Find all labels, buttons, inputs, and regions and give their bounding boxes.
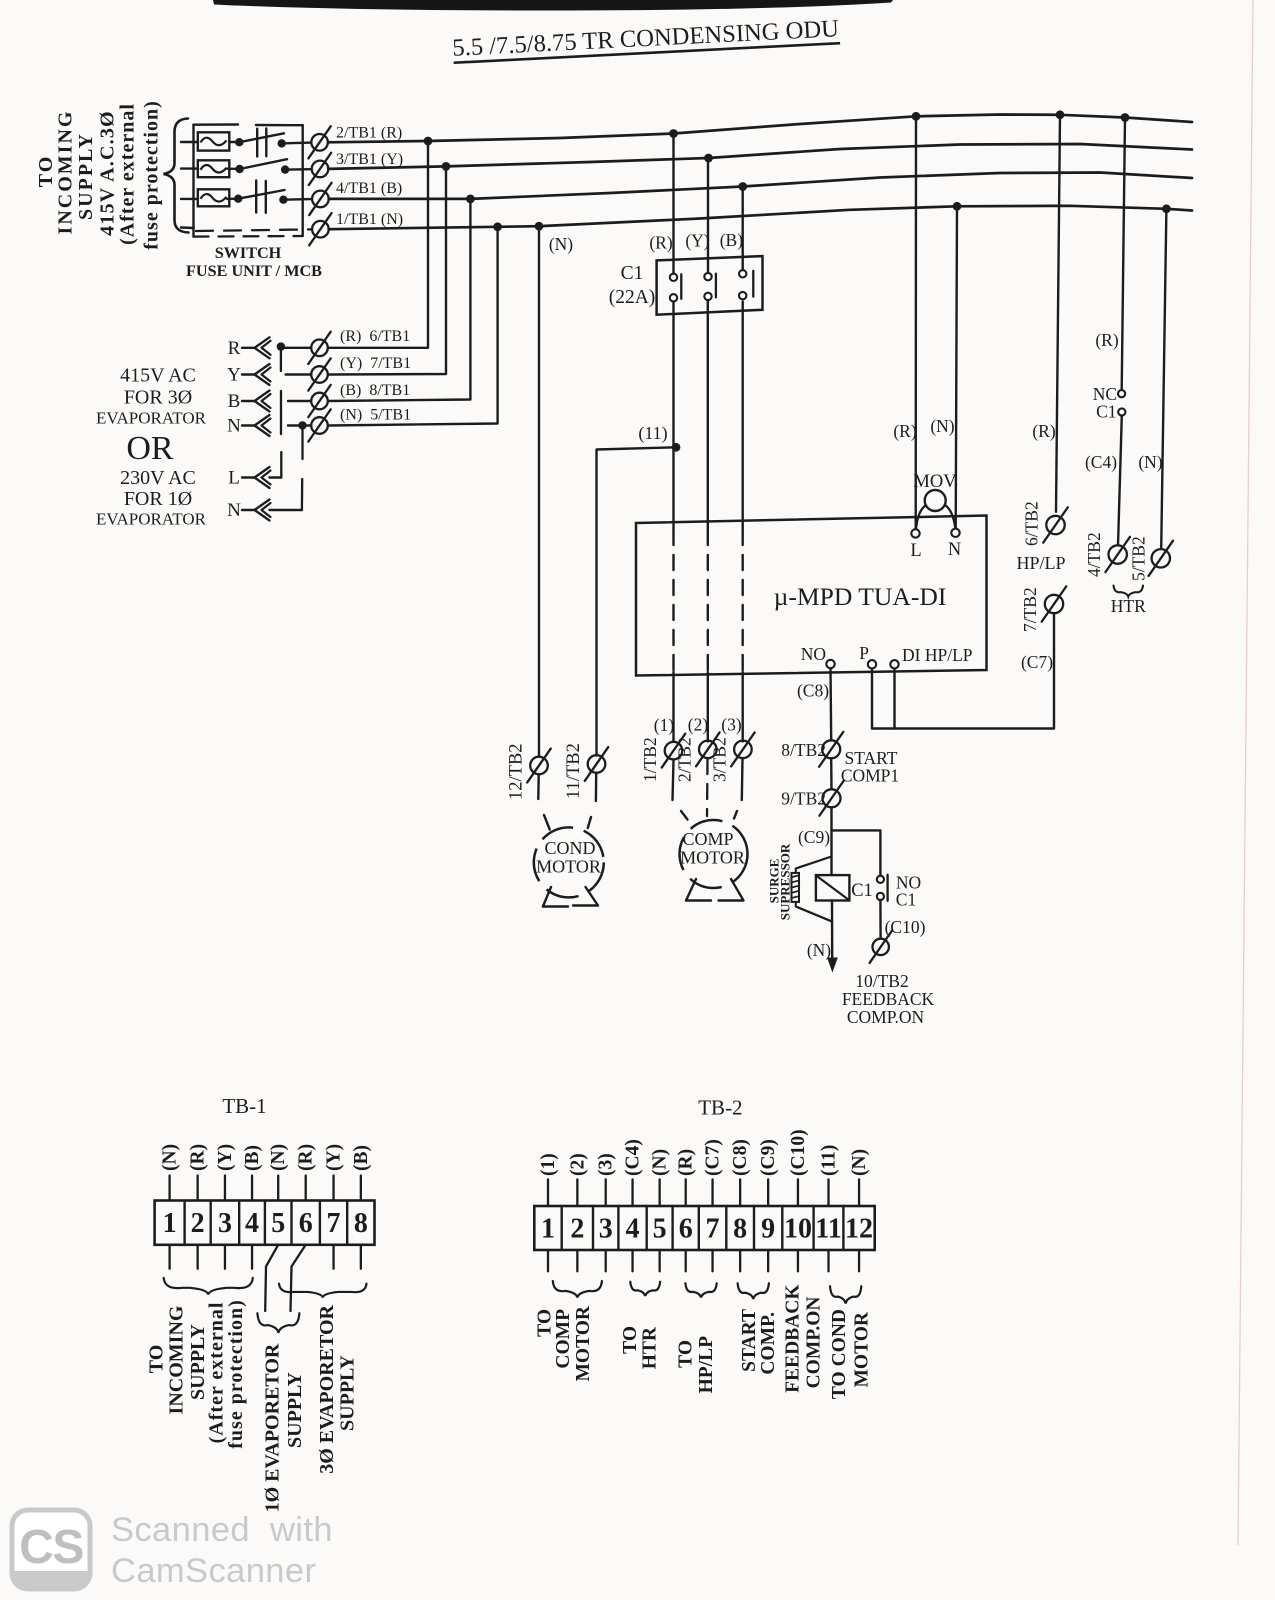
pin L of U1 <box>911 529 919 537</box>
svg-text:4: 4 <box>245 1208 259 1239</box>
wire: TB-2 pin 1 top lead <box>547 1179 549 1206</box>
svg-text:(R): (R) <box>649 233 673 253</box>
wire: Y phase bus <box>328 144 1192 169</box>
arrow to neutral <box>827 958 838 973</box>
junction on R bus at x=916 <box>912 112 921 121</box>
svg-text:COMP.: COMP. <box>758 1312 779 1375</box>
wire: C9 node branch to NO contact <box>832 830 881 875</box>
svg-text:8/TB2: 8/TB2 <box>781 740 826 760</box>
svg-text:(B): (B) <box>720 230 744 250</box>
svg-text:INCOMING: INCOMING <box>55 110 77 235</box>
pin N of U1 <box>951 529 959 537</box>
brace TB-2 pins 8-9 <box>738 1283 769 1299</box>
svg-text:(C4): (C4) <box>1085 452 1117 472</box>
varistor MOV <box>916 490 955 529</box>
svg-text:CS: CS <box>19 1521 83 1574</box>
svg-text:SUPPLY: SUPPLY <box>284 1371 306 1448</box>
wire: 12/TB2 to cond motor <box>537 775 540 799</box>
svg-text:FOR 1Ø: FOR 1Ø <box>124 488 192 510</box>
svg-text:(Y): (Y) <box>215 1144 236 1171</box>
svg-text:7: 7 <box>706 1214 720 1245</box>
svg-text:1: 1 <box>163 1208 177 1239</box>
svg-text:HTR: HTR <box>1111 596 1146 616</box>
svg-text:6: 6 <box>299 1208 313 1239</box>
svg-text:C1: C1 <box>621 263 644 284</box>
wire: TB-2 pin 5 bottom lead <box>659 1250 661 1271</box>
contact NC C1 <box>1118 390 1125 397</box>
wire: N bus drop to 12/TB2 <box>538 226 540 757</box>
svg-text:TO: TO <box>145 1345 167 1374</box>
wire: R bus drop to NC contact <box>1122 118 1125 390</box>
svg-text:3: 3 <box>218 1208 232 1239</box>
wire: NC to 4/TB2 <box>1118 416 1122 546</box>
svg-text:(R): (R) <box>1095 330 1119 350</box>
svg-text:CamScanner: CamScanner <box>111 1552 316 1590</box>
svg-text:415V AC: 415V AC <box>120 365 196 387</box>
brace TB-2 pins 4-5 <box>630 1282 660 1296</box>
svg-text:SUPPLY: SUPPLY <box>75 132 97 220</box>
svg-text:SWITCH: SWITCH <box>215 244 282 262</box>
svg-text:(R) 6/TB1: (R) 6/TB1 <box>340 328 410 345</box>
brace TB-2 pins 6-7 <box>685 1283 716 1297</box>
junction on N bus at x=539 <box>535 222 544 231</box>
wire: TB-2 pin 2 top lead <box>576 1179 578 1206</box>
svg-text:MOV: MOV <box>913 472 957 492</box>
svg-text:L: L <box>228 468 240 489</box>
wire: N bus drop to MOV N <box>956 206 957 528</box>
wire: TB-2 pin 10 top lead <box>797 1179 799 1206</box>
svg-text:10: 10 <box>784 1214 812 1245</box>
terminal 10/TB2 <box>870 931 892 963</box>
svg-text:(B): (B) <box>242 1145 263 1171</box>
wire: bus to C1 pole 2 <box>707 158 709 273</box>
svg-text:(Y): (Y) <box>324 1144 345 1171</box>
terminal 11/TB2 <box>585 747 609 781</box>
svg-text:R: R <box>228 338 241 359</box>
wire: TB-1 pin 4 top lead <box>251 1176 253 1201</box>
wire: P pin down <box>871 669 873 729</box>
wire: L alternative link (broken) <box>280 349 282 372</box>
svg-text:OR: OR <box>126 430 174 467</box>
svg-text:(C8): (C8) <box>730 1139 751 1176</box>
wire: TB-2 pin 3 bottom lead <box>605 1250 607 1271</box>
wire: N bus drop to 5/TB2 <box>1161 209 1166 549</box>
scanned page top edge band <box>213 0 893 11</box>
wire: C1 pole 2 output to 2/TB2 <box>707 301 709 531</box>
switch S1 pole 1 (R) <box>229 129 311 157</box>
pin P of U1 <box>868 660 876 668</box>
terminal 3/TB2 <box>731 732 755 766</box>
brace 1Ø evaporator supply <box>257 1313 299 1333</box>
junction on N bus at x=957 <box>953 202 962 211</box>
svg-text:FUSE UNIT / MCB: FUSE UNIT / MCB <box>186 262 322 280</box>
wire: R bus drop to MOV L <box>915 116 918 529</box>
CamScanner logo <box>12 1510 90 1589</box>
svg-text:(C8): (C8) <box>797 681 829 701</box>
svg-text:(C4): (C4) <box>623 1139 644 1176</box>
svg-text:MOTOR: MOTOR <box>573 1305 594 1381</box>
svg-text:COND: COND <box>544 838 595 858</box>
wire: TB-1 pin 8 bottom lead <box>360 1245 362 1269</box>
wire: TB-1 pin 6 lead to 1Ø supply <box>291 1245 306 1311</box>
svg-text:(C9): (C9) <box>798 827 830 847</box>
junction (11) on pole-1 output <box>672 443 681 452</box>
brace 3Ø evaporator supply <box>279 1284 367 1298</box>
svg-text:TB-1: TB-1 <box>222 1094 266 1118</box>
svg-text:(N): (N) <box>549 234 573 254</box>
motor M1: COND MOTOR <box>534 827 604 897</box>
svg-text:(3): (3) <box>596 1153 617 1176</box>
svg-text:(N): (N) <box>930 416 954 436</box>
svg-text:(After external: (After external <box>117 103 139 245</box>
svg-text:L: L <box>910 541 921 561</box>
svg-text:1: 1 <box>541 1214 555 1245</box>
svg-text:TB-2: TB-2 <box>698 1096 742 1120</box>
svg-text:NO: NO <box>801 644 826 664</box>
wire: TB-1 pin 4 bottom lead <box>251 1245 253 1269</box>
svg-text:11: 11 <box>815 1214 841 1245</box>
svg-text:(B): (B) <box>351 1145 372 1171</box>
wire: N neutral bus <box>329 206 1192 229</box>
svg-text:1/TB2: 1/TB2 <box>640 737 660 782</box>
svg-text:(3): (3) <box>721 715 742 735</box>
switch S1 pole 3 (B) <box>227 180 311 212</box>
svg-text:5/TB2: 5/TB2 <box>1129 536 1149 581</box>
wire: Y bus drop to 7/TB1 <box>328 166 446 374</box>
wire: TB-2 pin 8 bottom lead <box>739 1250 741 1271</box>
wire: TB-1 pin 2 top lead <box>196 1176 198 1201</box>
contactor C1 box <box>657 256 763 315</box>
terminal 4/TB2 <box>1105 537 1130 572</box>
svg-text:(N): (N) <box>160 1144 181 1171</box>
switch S1 pole 2 (Y) <box>227 159 311 174</box>
svg-text:12/TB2: 12/TB2 <box>507 743 527 800</box>
svg-text:Y: Y <box>227 365 241 386</box>
junction on R bus at x=1125 <box>1121 113 1130 122</box>
wire: C1 pole 1 output to 1/TB2 <box>672 302 674 531</box>
svg-text:(N): (N) <box>807 940 831 960</box>
surge suppressor <box>791 857 832 922</box>
wire: TB-1 pin 5 lead to 1Ø supply <box>265 1245 278 1311</box>
svg-text:(1): (1) <box>654 715 675 735</box>
page fold line (right edge) <box>1238 0 1253 1545</box>
svg-text:4/TB1 (B): 4/TB1 (B) <box>336 180 402 197</box>
svg-text:fuse protection): fuse protection) <box>225 1299 247 1449</box>
svg-text:(R): (R) <box>893 421 917 441</box>
wire: B bus drop to 8/TB1 <box>328 199 470 401</box>
contactor C1 pole 1 contacts <box>670 274 677 281</box>
wire: 1/TB2 to comp motor <box>673 760 674 800</box>
svg-text:fuse protection): fuse protection) <box>140 100 162 250</box>
brace TB-2 pins 1-3 <box>553 1281 602 1298</box>
svg-text:(2): (2) <box>567 1153 588 1176</box>
svg-text:N: N <box>227 416 241 437</box>
svg-text:(Y) 7/TB1: (Y) 7/TB1 <box>340 355 411 372</box>
wire: R bus drop to 6/TB1 <box>328 141 428 348</box>
wire: neutral link through switch-fuse unit (dashed) <box>196 229 312 231</box>
svg-text:(Y): (Y) <box>685 231 709 251</box>
svg-text:C1: C1 <box>1096 402 1116 422</box>
terminal 7/TB1 <box>308 358 330 390</box>
svg-text:(R): (R) <box>296 1144 317 1171</box>
svg-text:µ-MPD TUA-DI: µ-MPD TUA-DI <box>774 582 947 611</box>
svg-text:(N) 5/TB1: (N) 5/TB1 <box>340 407 411 424</box>
controller U1: µ-MPD TUA-DI box <box>636 516 987 676</box>
terminal 1/TB1 <box>309 213 331 245</box>
svg-text:(C7): (C7) <box>703 1139 724 1176</box>
terminal block TB-1 body <box>155 1201 375 1245</box>
wire: TB-2 pin 6 bottom lead <box>685 1250 687 1271</box>
wire: TB-2 pin 12 top lead <box>858 1179 860 1206</box>
svg-text:TO: TO <box>620 1326 641 1354</box>
comp motor feet <box>686 879 711 901</box>
wire: TB-2 pin 11 top lead <box>827 1179 829 1206</box>
wire: TB-2 pin 4 bottom lead <box>631 1250 633 1271</box>
terminal 6/TB1 <box>308 332 330 364</box>
svg-text:(C9): (C9) <box>758 1139 779 1176</box>
wire: P/DI to 7/TB2 riser <box>872 614 1054 729</box>
contactor C1 pole 2 contacts <box>704 273 711 280</box>
svg-text:8: 8 <box>354 1208 368 1239</box>
svg-text:Scanned with: Scanned with <box>111 1511 333 1549</box>
svg-text:P: P <box>859 643 869 663</box>
svg-text:COMP.ON: COMP.ON <box>804 1297 825 1389</box>
brace TB-1 pins 1-4 <box>164 1278 253 1295</box>
wire: TB-2 pin 10 bottom lead <box>797 1250 799 1271</box>
wire: R phase bus <box>328 115 1192 143</box>
svg-text:9/TB2: 9/TB2 <box>781 789 826 809</box>
wire: TB-2 pin 9 top lead <box>767 1179 769 1206</box>
brace: incoming supply <box>164 119 189 233</box>
svg-text:2/TB2: 2/TB2 <box>674 737 694 782</box>
wire: incoming stubs into switch-fuse unit <box>181 141 198 143</box>
svg-text:COMP1: COMP1 <box>841 766 899 786</box>
wire: NO pin to 8/TB2 <box>829 668 832 740</box>
wire: C1 pole 3 output to 3/TB2 <box>742 302 744 531</box>
wire: N alternative link (broken) <box>301 428 303 460</box>
svg-text:7: 7 <box>327 1208 341 1239</box>
svg-text:(11): (11) <box>638 423 667 444</box>
svg-text:FEEDBACK: FEEDBACK <box>783 1284 804 1393</box>
svg-text:C1: C1 <box>851 881 873 901</box>
svg-text:8: 8 <box>733 1214 747 1245</box>
svg-text:3: 3 <box>599 1214 613 1245</box>
contactor C1 pole 3 contacts <box>739 270 746 277</box>
svg-text:HP/LP: HP/LP <box>696 1336 717 1394</box>
svg-text:6: 6 <box>679 1214 693 1245</box>
wire: TB-2 pin 1 bottom lead <box>547 1250 549 1271</box>
svg-text:HTR: HTR <box>640 1326 661 1369</box>
wire: bus to C1 pole 1 <box>672 134 674 274</box>
terminal 5/TB2 <box>1149 541 1174 576</box>
svg-text:FEEDBACK: FEEDBACK <box>842 989 935 1009</box>
svg-text:INCOMING: INCOMING <box>166 1305 188 1414</box>
svg-text:2/TB1 (R): 2/TB1 (R) <box>336 125 402 142</box>
terminal 8/TB2 <box>819 732 843 767</box>
svg-text:230V AC: 230V AC <box>120 467 196 489</box>
junction on R bus at x=428 <box>424 137 433 146</box>
label: TO INCOMING SUPPLY 415V A.C.3Ø (After external fuse protection) <box>35 100 162 250</box>
terminal 3/TB1 <box>309 153 331 185</box>
terminal 12/TB2 <box>527 749 551 783</box>
svg-text:3Ø EVAPORETOR: 3Ø EVAPORETOR <box>316 1304 338 1473</box>
wire: TB-1 pin 8 top lead <box>360 1176 362 1201</box>
svg-text:(C10): (C10) <box>788 1129 809 1176</box>
wire: TB-1 pin 7 bottom lead <box>332 1245 334 1269</box>
junction on N bus at x=1166.4 <box>1162 204 1171 213</box>
wire: 11/TB2 to cond motor <box>595 773 598 801</box>
svg-text:SUPRESSOR: SUPRESSOR <box>778 843 793 920</box>
wire: TB-2 pin 9 bottom lead <box>767 1250 769 1271</box>
svg-text:COMP: COMP <box>682 829 733 849</box>
wire: TB-2 pin 4 top lead <box>631 1179 633 1206</box>
wire: TB-1 pin 7 top lead <box>332 1176 334 1201</box>
svg-text:12: 12 <box>845 1214 873 1245</box>
svg-text:(R): (R) <box>188 1144 209 1171</box>
junction on N bus at x=497.6 <box>493 222 502 231</box>
svg-text:2: 2 <box>191 1208 205 1239</box>
wire: coil C1 to neutral arrow <box>831 901 834 960</box>
terminal block TB-2 body <box>534 1206 874 1250</box>
relay coil C1 <box>816 875 850 900</box>
wire: TB-1 pin 6 top lead <box>305 1176 307 1201</box>
fuse F3 <box>198 189 230 206</box>
wire: 8/TB2 to 9/TB2 <box>830 759 833 790</box>
wire: TB-2 pin 11 bottom lead <box>827 1250 829 1271</box>
svg-text:EVAPORATOR: EVAPORATOR <box>96 409 207 428</box>
terminal 9/TB2 <box>819 781 843 816</box>
cond motor feet <box>543 887 568 907</box>
svg-text:C1: C1 <box>896 890 916 910</box>
wire: B phase bus <box>329 173 1192 199</box>
wire: TB-2 pin 12 bottom lead <box>858 1250 860 1271</box>
svg-text:3/TB1 (Y): 3/TB1 (Y) <box>336 151 403 168</box>
svg-text:MOTOR: MOTOR <box>536 857 601 877</box>
svg-text:TO: TO <box>675 1340 696 1368</box>
svg-text:5: 5 <box>653 1214 667 1245</box>
wire: bus to C1 pole 3 <box>742 187 744 271</box>
wire: N bus drop to 5/TB1 <box>328 227 498 426</box>
svg-text:COMP.ON: COMP.ON <box>847 1007 925 1027</box>
contact NO C1 (aux) <box>877 876 884 883</box>
wire: TB-2 pin 5 top lead <box>659 1179 661 1206</box>
svg-text:(R): (R) <box>1032 421 1056 441</box>
wire: TB-1 pin 1 bottom lead <box>168 1245 170 1269</box>
wire: C9 node to coil C1 <box>830 830 832 875</box>
pin DI HP/LP of U1 <box>890 660 898 668</box>
terminal 6/TB2 <box>1043 507 1068 542</box>
switch fuse unit / MCB enclosure <box>194 125 303 237</box>
junction on B bus at x=742.8 <box>738 182 747 191</box>
wire: 2/TB2 to comp motor (dashed) <box>706 759 709 816</box>
junction on Y bus at x=446 <box>442 162 451 171</box>
terminal 1/TB2 <box>662 734 686 768</box>
wire: TB-2 pin 6 top lead <box>685 1179 687 1206</box>
svg-text:MOTOR: MOTOR <box>851 1311 872 1387</box>
wire: TB-2 pin 8 top lead <box>739 1179 741 1206</box>
svg-text:2: 2 <box>570 1214 584 1245</box>
junction on R bus at x=1060 <box>1056 110 1065 119</box>
wire: TB-1 pin 3 bottom lead <box>224 1245 226 1269</box>
pin NO of U1 <box>826 660 834 668</box>
junction on B bus at x=470.4 <box>466 195 475 204</box>
svg-text:(N): (N) <box>650 1149 671 1176</box>
wire: TB-1 pin 5 top lead <box>277 1176 279 1201</box>
svg-text:(C7): (C7) <box>1021 652 1053 672</box>
svg-text:(N): (N) <box>268 1144 289 1171</box>
svg-text:1Ø EVAPORETOR: 1Ø EVAPORETOR <box>261 1343 283 1512</box>
svg-text:3/TB2: 3/TB2 <box>709 737 729 782</box>
terminal 4/TB1 <box>309 183 331 215</box>
brace TB-2 pins 11-12 <box>830 1286 861 1303</box>
svg-text:11/TB2: 11/TB2 <box>564 743 584 799</box>
svg-text:415V A.C.3Ø: 415V A.C.3Ø <box>96 110 118 236</box>
junction on Y bus at x=708.5 <box>704 154 713 163</box>
wire: TB-1 pin 1 top lead <box>168 1176 170 1201</box>
svg-text:5: 5 <box>271 1208 285 1239</box>
motor M2: COMP MOTOR <box>680 820 748 888</box>
svg-text:6/TB2: 6/TB2 <box>1022 501 1042 546</box>
svg-text:4: 4 <box>626 1214 640 1245</box>
svg-text:(22A): (22A) <box>609 287 656 308</box>
wire: TB-2 pin 7 top lead <box>711 1179 713 1206</box>
svg-text:B: B <box>228 391 241 412</box>
svg-text:(R): (R) <box>676 1149 697 1176</box>
terminal 7/TB2 <box>1042 586 1067 621</box>
svg-text:N: N <box>948 540 961 560</box>
svg-text:START: START <box>739 1309 760 1372</box>
wire: 9/TB2 down to C9 node <box>830 808 832 831</box>
terminal 2/TB1 <box>308 126 330 158</box>
svg-text:(11): (11) <box>819 1145 840 1176</box>
svg-text:4/TB2: 4/TB2 <box>1084 532 1104 577</box>
wire: TB-1 pin 3 top lead <box>224 1176 226 1201</box>
svg-text:EVAPORATOR: EVAPORATOR <box>96 510 207 529</box>
svg-text:(N): (N) <box>849 1149 870 1176</box>
title: 5.5/7.5/8.75 TR CONDENSING ODU <box>452 15 840 63</box>
svg-text:TO COND: TO COND <box>829 1309 850 1399</box>
wire: R bus drop to 6/TB2 <box>1056 115 1060 512</box>
svg-text:HP/LP: HP/LP <box>1016 553 1065 573</box>
svg-text:(N): (N) <box>1138 452 1162 472</box>
wire: 11/TB2 riser and (11) branch <box>597 447 677 755</box>
svg-text:9: 9 <box>761 1214 775 1245</box>
terminal 8/TB1 <box>308 385 330 417</box>
wire: TB-2 pin 2 bottom lead <box>576 1250 578 1271</box>
svg-text:DI HP/LP: DI HP/LP <box>902 645 973 665</box>
svg-text:1/TB1 (N): 1/TB1 (N) <box>336 211 403 228</box>
svg-text:(2): (2) <box>688 715 709 735</box>
wire: DI pin down <box>893 669 895 729</box>
svg-text:FOR 3Ø: FOR 3Ø <box>124 387 192 409</box>
fuse F1 <box>198 132 230 150</box>
wire: TB-2 pin 7 bottom lead <box>711 1250 713 1271</box>
wire: TB-2 pin 3 top lead <box>605 1179 607 1206</box>
wire: 3/TB2 to comp motor <box>741 759 744 800</box>
svg-text:SUPPLY: SUPPLY <box>336 1354 358 1431</box>
svg-text:MOTOR: MOTOR <box>680 848 745 868</box>
terminal 2/TB2 <box>696 732 720 766</box>
svg-text:N: N <box>227 500 241 521</box>
svg-text:(B) 8/TB1: (B) 8/TB1 <box>340 382 410 399</box>
fuse F2 <box>198 160 230 177</box>
svg-text:COMP: COMP <box>553 1309 574 1369</box>
svg-text:7/TB2: 7/TB2 <box>1020 587 1040 632</box>
terminal 5/TB1 <box>308 409 330 441</box>
svg-text:10/TB2: 10/TB2 <box>855 971 908 991</box>
wire: TB-1 pin 2 bottom lead <box>196 1245 198 1269</box>
svg-text:(1): (1) <box>538 1153 559 1176</box>
